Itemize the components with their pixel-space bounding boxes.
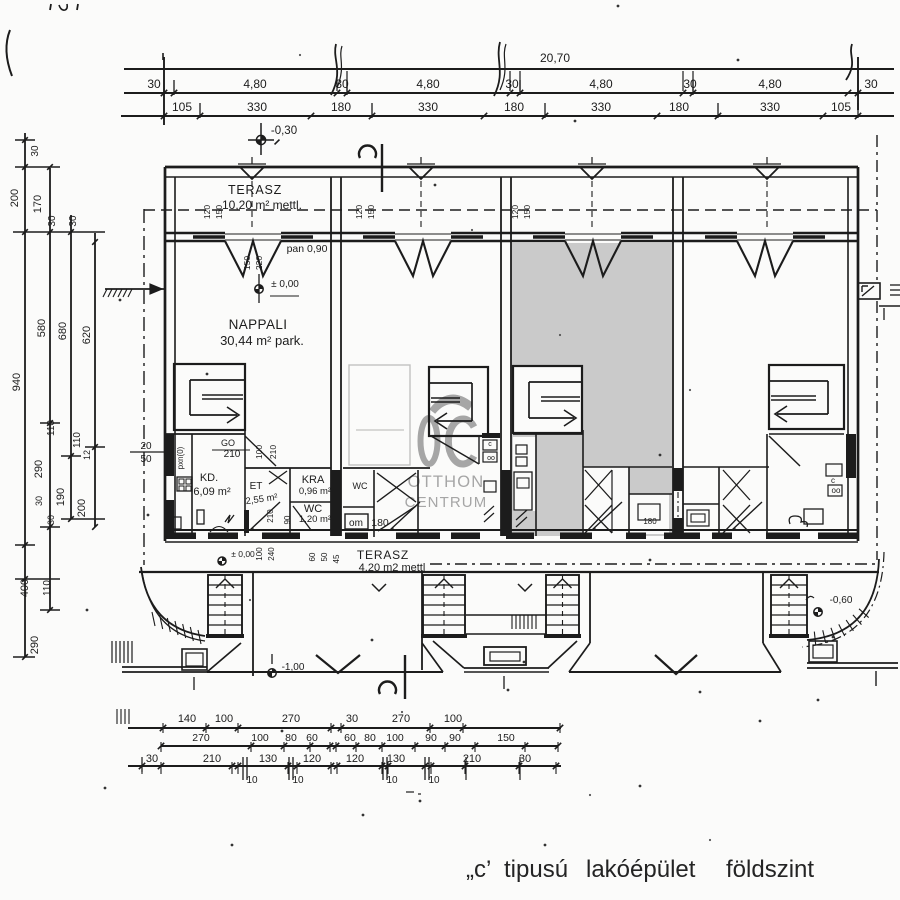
svg-text:10: 10 [246, 775, 258, 786]
svg-text:150: 150 [522, 205, 532, 219]
svg-text:210: 210 [203, 753, 221, 765]
svg-text:150: 150 [214, 205, 224, 219]
svg-text:lakóépület: lakóépület [586, 856, 696, 883]
svg-text:240: 240 [267, 547, 276, 561]
svg-text:50: 50 [320, 552, 329, 561]
svg-text:oo: oo [832, 486, 841, 495]
svg-text:30: 30 [147, 77, 161, 91]
svg-text:110: 110 [72, 432, 83, 448]
svg-text:180: 180 [504, 100, 524, 114]
svg-text:± 0,00: ± 0,00 [231, 549, 255, 559]
svg-text:200: 200 [76, 499, 88, 517]
svg-text:om: om [349, 518, 363, 529]
svg-text:90: 90 [425, 732, 437, 744]
svg-text:90: 90 [283, 515, 292, 524]
svg-text:12: 12 [82, 450, 92, 460]
svg-text:180: 180 [371, 517, 389, 529]
svg-text:290: 290 [33, 460, 45, 478]
svg-text:30,44 m² park.: 30,44 m² park. [220, 333, 304, 348]
svg-text:45: 45 [332, 554, 341, 563]
svg-text:400: 400 [19, 579, 31, 597]
svg-text:290: 290 [29, 636, 41, 654]
svg-text:170: 170 [32, 195, 44, 213]
svg-text:4,20 m2 mettl: 4,20 m2 mettl [359, 562, 426, 574]
svg-text:4,80: 4,80 [243, 77, 267, 91]
svg-text:330: 330 [591, 100, 611, 114]
svg-text:130: 130 [259, 753, 277, 765]
svg-text:ET: ET [250, 481, 263, 492]
svg-text:c: c [831, 476, 835, 485]
svg-text:120: 120 [303, 753, 321, 765]
svg-text:80: 80 [364, 732, 376, 744]
svg-text:100: 100 [386, 732, 404, 744]
svg-text:580: 580 [36, 319, 48, 337]
svg-text:0,96 m²: 0,96 m² [299, 486, 331, 497]
svg-text:100: 100 [444, 713, 462, 725]
svg-text:150: 150 [366, 205, 376, 219]
svg-text:20,70: 20,70 [540, 51, 570, 65]
svg-text:30: 30 [683, 77, 697, 91]
svg-text:80: 80 [285, 732, 297, 744]
svg-text:150: 150 [242, 256, 252, 270]
svg-text:10: 10 [386, 775, 398, 786]
svg-text:200: 200 [9, 189, 21, 207]
svg-text:190: 190 [55, 488, 67, 506]
svg-text:120: 120 [510, 205, 520, 219]
svg-text:30: 30 [68, 215, 79, 227]
svg-text:50: 50 [140, 454, 152, 465]
svg-text:180: 180 [669, 100, 689, 114]
svg-text:KRA: KRA [302, 474, 325, 486]
svg-text:120: 120 [354, 205, 364, 219]
svg-text:130: 130 [387, 753, 405, 765]
svg-text:4,80: 4,80 [758, 77, 782, 91]
svg-text:oo: oo [487, 455, 495, 462]
svg-text:140: 140 [178, 713, 196, 725]
svg-text:tipusú: tipusú [504, 856, 568, 883]
svg-text:110: 110 [46, 420, 57, 436]
svg-text:620: 620 [81, 326, 93, 344]
svg-text:c: c [488, 441, 492, 448]
svg-text:210: 210 [268, 445, 278, 459]
svg-text:30: 30 [519, 753, 531, 765]
svg-text:330: 330 [247, 100, 267, 114]
svg-text:30: 30 [34, 496, 44, 506]
svg-text:30: 30 [47, 215, 58, 227]
svg-text:220: 220 [254, 256, 264, 270]
svg-text:60: 60 [344, 732, 356, 744]
svg-text:10,20 m² mettl.: 10,20 m² mettl. [222, 198, 302, 212]
svg-text:270: 270 [192, 732, 210, 744]
svg-text:TERASZ: TERASZ [357, 548, 409, 562]
svg-text:30: 30 [505, 77, 519, 91]
svg-text:210: 210 [224, 449, 241, 460]
svg-text:330: 330 [760, 100, 780, 114]
svg-text:4,80: 4,80 [416, 77, 440, 91]
svg-text:GO: GO [221, 438, 235, 448]
svg-text:CENTRUM: CENTRUM [405, 494, 488, 511]
svg-text:6,09 m²: 6,09 m² [193, 486, 231, 498]
svg-text:WC: WC [353, 481, 368, 491]
svg-text:940: 940 [11, 373, 23, 391]
svg-text:4,80: 4,80 [589, 77, 613, 91]
svg-text:pan 0,90: pan 0,90 [287, 243, 328, 255]
svg-text:-0,30: -0,30 [271, 125, 297, 137]
svg-text:TERASZ: TERASZ [228, 183, 282, 197]
svg-text:NAPPALI: NAPPALI [229, 317, 288, 332]
svg-text:180: 180 [331, 100, 351, 114]
svg-text:90: 90 [449, 732, 461, 744]
svg-text:30: 30 [146, 753, 158, 765]
svg-text:„c’: „c’ [466, 856, 491, 883]
svg-text:105: 105 [172, 100, 192, 114]
svg-text:150: 150 [497, 732, 515, 744]
svg-text:30: 30 [864, 77, 878, 91]
svg-text:100: 100 [251, 732, 269, 744]
svg-text:270: 270 [282, 713, 300, 725]
svg-text:330: 330 [418, 100, 438, 114]
svg-text:60: 60 [308, 552, 317, 561]
svg-text:pxn(0): pxn(0) [176, 446, 185, 469]
svg-text:180: 180 [643, 517, 657, 526]
svg-text:100: 100 [255, 547, 264, 561]
svg-text:± 0,00: ± 0,00 [271, 279, 299, 290]
svg-text:KD.: KD. [200, 472, 218, 484]
svg-text:-0,60: -0,60 [830, 595, 853, 606]
svg-text:10: 10 [428, 775, 440, 786]
svg-text:földszint: földszint [726, 856, 814, 883]
svg-text:30: 30 [30, 145, 41, 157]
svg-text:110: 110 [42, 580, 53, 596]
svg-text:680: 680 [57, 322, 69, 340]
svg-text:30: 30 [46, 515, 56, 525]
svg-text:10: 10 [292, 775, 304, 786]
svg-text:30: 30 [346, 713, 358, 725]
svg-text:120: 120 [202, 205, 212, 219]
svg-text:20: 20 [140, 441, 152, 452]
svg-text:270: 270 [392, 713, 410, 725]
svg-text:120: 120 [346, 753, 364, 765]
svg-text:100: 100 [215, 713, 233, 725]
svg-text:OTTHON: OTTHON [408, 473, 485, 491]
svg-text:60: 60 [306, 732, 318, 744]
svg-text:105: 105 [831, 100, 851, 114]
svg-text:-1,00: -1,00 [282, 662, 305, 673]
